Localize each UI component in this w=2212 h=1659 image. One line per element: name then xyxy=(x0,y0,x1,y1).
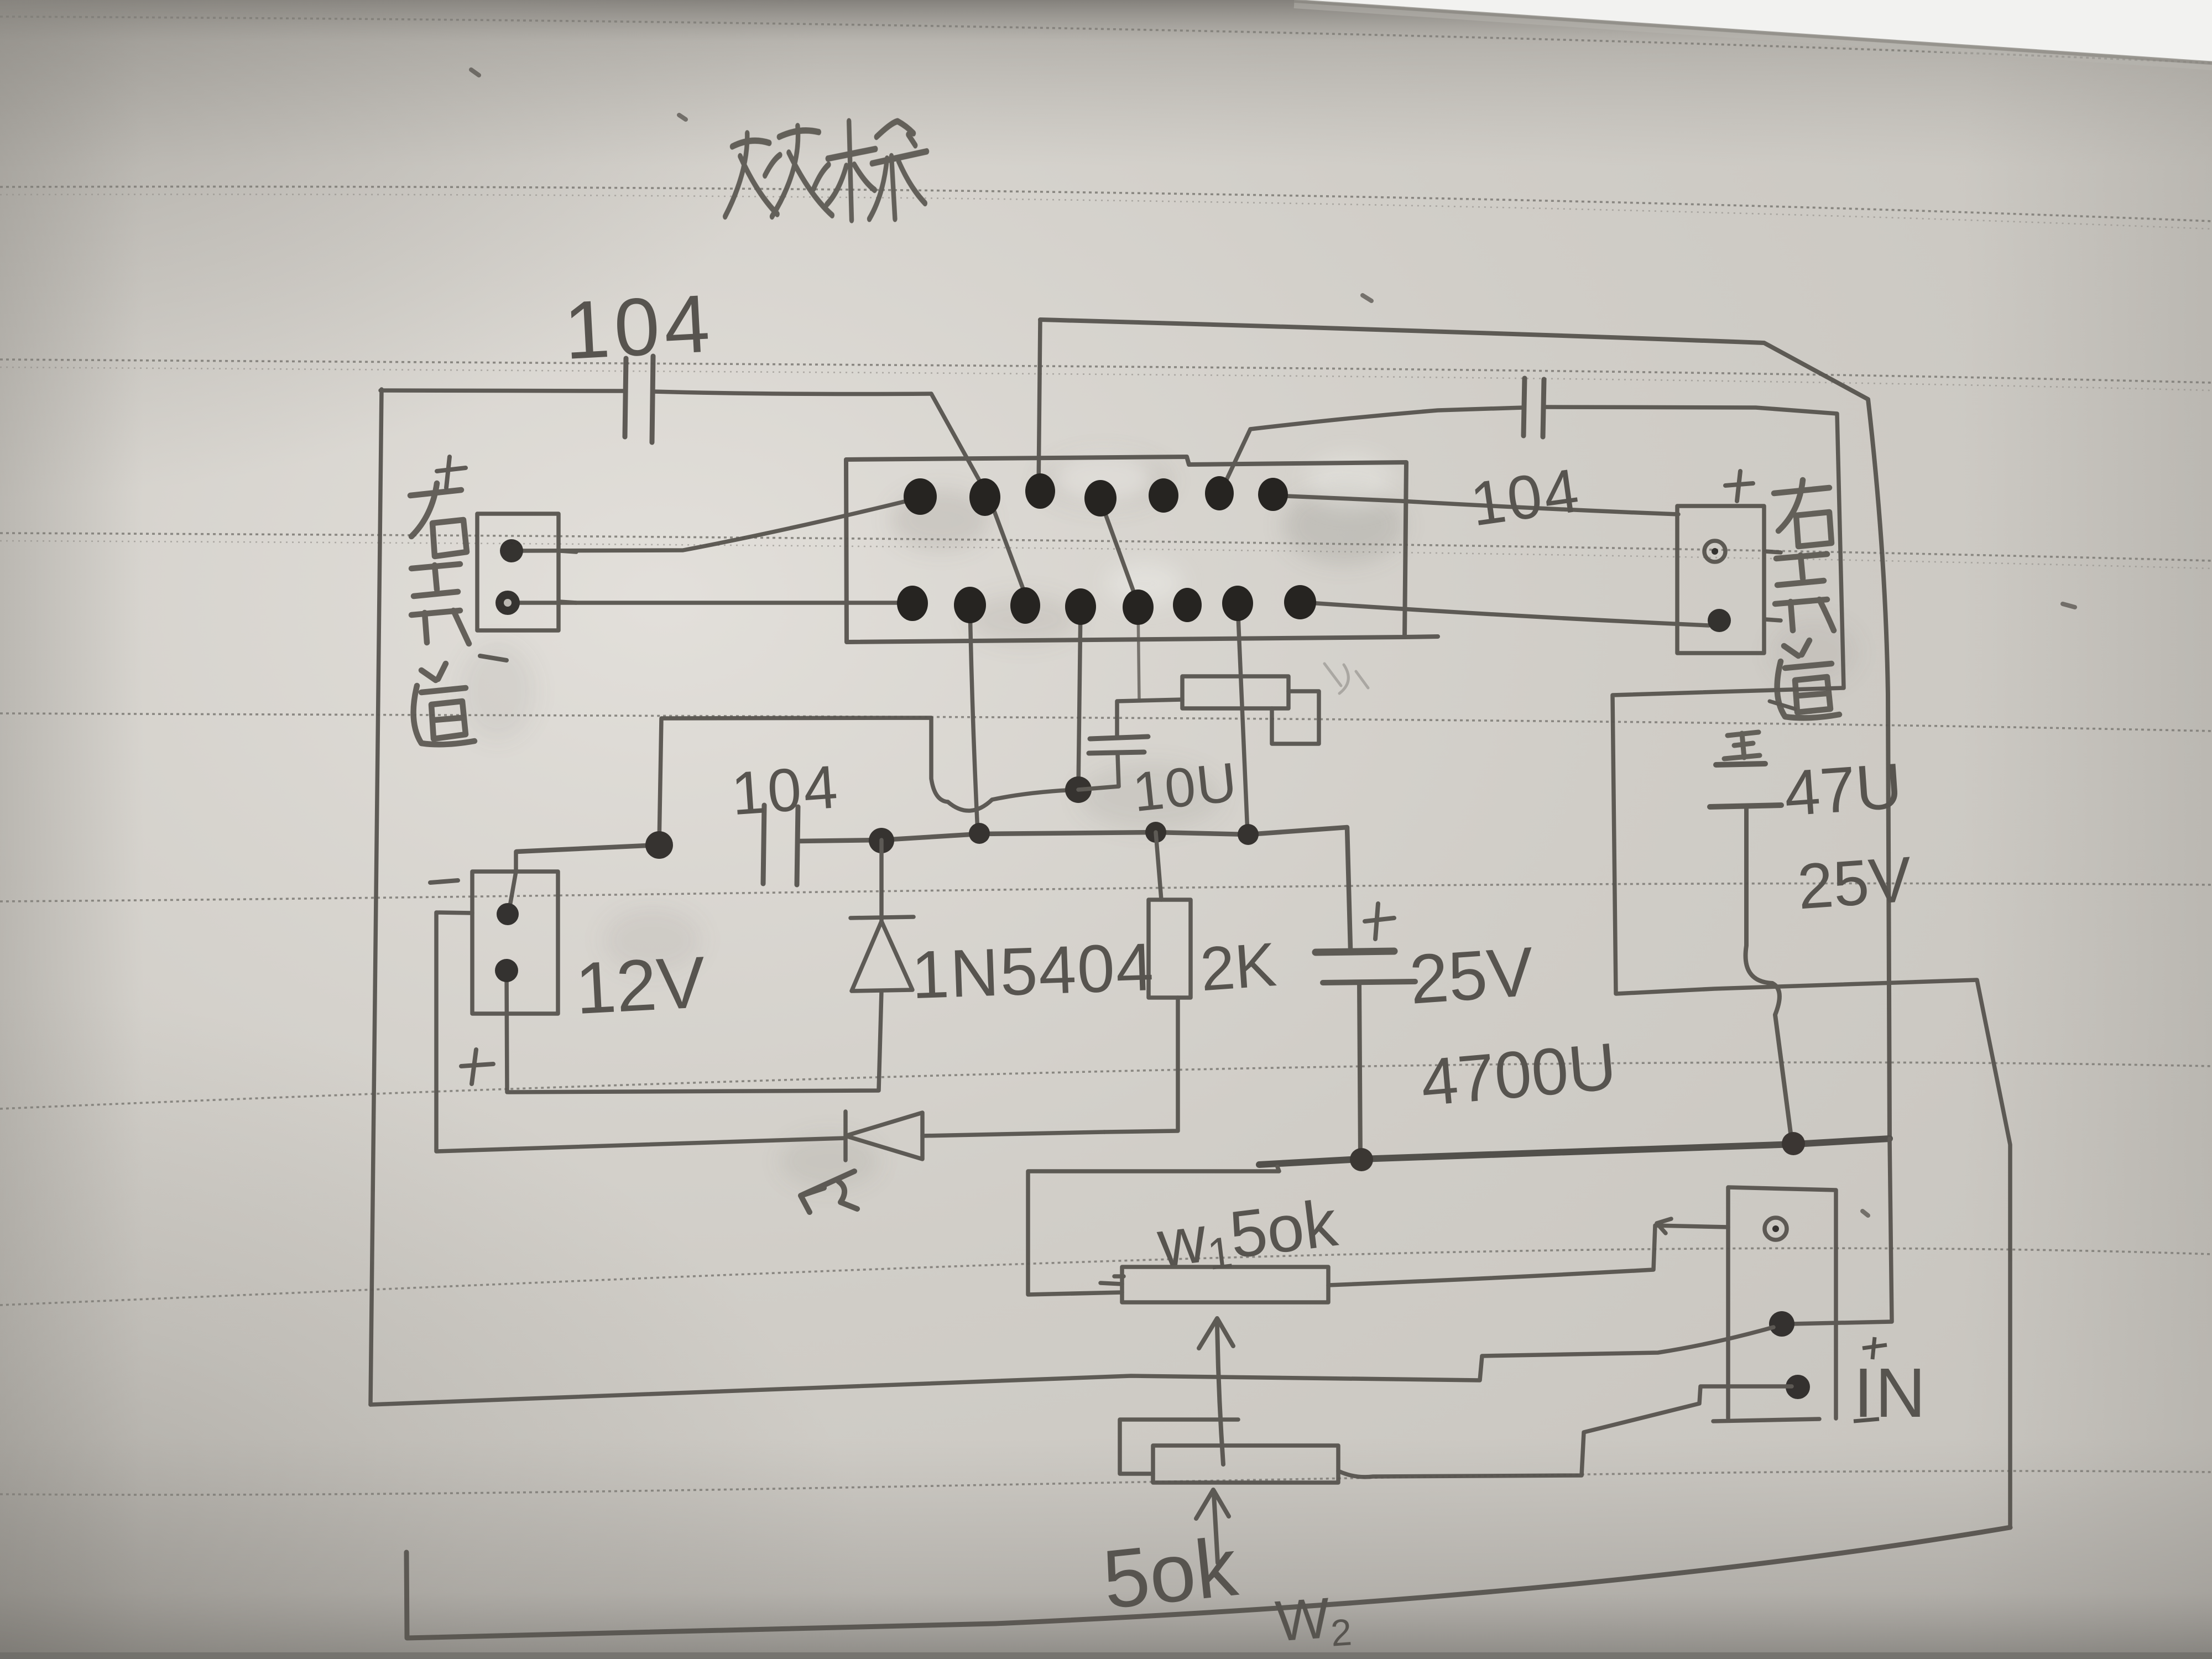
wire rail corner down to IN middle xyxy=(1792,1139,1892,1324)
polarity plus J3 xyxy=(461,1050,493,1084)
arrows K under D2 xyxy=(801,1171,857,1212)
wire node to 10U bottom xyxy=(1078,786,1119,790)
page top edge / white table wedge xyxy=(1294,0,2212,62)
pin T7 xyxy=(1258,478,1288,511)
wire pin B8 to connector J2 bottom xyxy=(1301,602,1709,625)
W2 wiper arrow xyxy=(1196,1490,1229,1563)
wire J3 left loop to diode D2 line xyxy=(436,912,846,1151)
pin B8 xyxy=(1284,585,1316,619)
pin B5 xyxy=(1123,589,1154,625)
capacitor C3 104 right plate xyxy=(797,807,798,885)
pin T2 xyxy=(969,478,1000,516)
svg-text:25V: 25V xyxy=(1407,932,1536,1019)
capacitor C1 104 left plate xyxy=(625,358,626,437)
handwritten labels xyxy=(562,278,1928,1658)
title and CJK labels as strokes xyxy=(410,121,1839,759)
capacitor C2 104 left plate xyxy=(1524,378,1525,436)
capacitor C1 104 right plate xyxy=(652,356,653,442)
diode D1 1N5404 xyxy=(507,840,914,1092)
pin T3 xyxy=(1025,473,1055,509)
wire pin B7 through trimmer to bus xyxy=(1238,603,1248,833)
wire 10U stems xyxy=(1117,700,1182,786)
diode D2 (to left) xyxy=(846,1112,922,1160)
wire top border with bevel and right border down to rail xyxy=(1040,320,1890,1139)
capacitor C5 10U bottom plate xyxy=(1089,752,1144,753)
potentiometer W2 left bracket xyxy=(1120,1420,1238,1474)
polarity minus J1 xyxy=(480,656,507,660)
connector J4 IN xyxy=(1713,1187,1836,1421)
wire connector J1 top terminal to pin T1 xyxy=(513,498,918,551)
wire C4 stem to rail xyxy=(1359,983,1360,1160)
connector J2 (right channel) xyxy=(1677,506,1764,653)
wire pin B2 down to bus xyxy=(970,605,978,833)
polarity plus J2 xyxy=(1725,471,1753,501)
12V connector J3 xyxy=(472,872,558,1014)
wire pin B4 down to node xyxy=(1078,607,1081,789)
svg-text:104: 104 xyxy=(562,278,716,377)
title 双桥 xyxy=(725,121,927,220)
bus wire from 12V stem to C4 corner xyxy=(517,827,1350,949)
wire pin T6 riser to C2 xyxy=(1220,408,1524,494)
wire pin B5 stub to 10U link xyxy=(1138,607,1139,700)
pin B2 xyxy=(954,587,986,623)
connector block U1 outline xyxy=(846,457,1438,642)
junction dot bus-trimmer xyxy=(1238,824,1259,845)
junction dot bus-2K xyxy=(1145,822,1166,843)
wire pin T7 to connector J2 top xyxy=(1274,495,1678,514)
pencil smudges xyxy=(459,453,1858,1189)
faint scribble 45 inside block xyxy=(1324,664,1368,693)
wire riser pin T3 to top border xyxy=(1039,320,1040,490)
resistor R1 2K body xyxy=(1149,900,1191,998)
junction dot bus-pinB2 xyxy=(969,823,990,844)
small char above 47U xyxy=(1724,732,1760,759)
svg-text:10U: 10U xyxy=(1130,751,1240,823)
wire W2 right to IN bottom xyxy=(1338,1386,1792,1477)
trimmer RP3 tab box xyxy=(1272,691,1319,744)
connector block U1 pins xyxy=(897,473,1316,625)
wire W1 right to IN top xyxy=(1328,1219,1728,1285)
left label column (right channel) xyxy=(410,483,467,556)
wire connector J1 bottom terminal to pin B1 xyxy=(509,601,911,605)
capacitor C3 104 left plate xyxy=(763,805,764,884)
wire C1 to corner xyxy=(653,392,931,394)
pin B6 xyxy=(1173,588,1202,622)
potentiometer W2 body xyxy=(1153,1446,1338,1483)
pin B4 xyxy=(1065,588,1096,625)
junction dot bus-C3 right xyxy=(869,828,894,853)
node junction dot 10U xyxy=(1065,776,1092,803)
resistor R1 2K leads xyxy=(1104,832,1178,1132)
eraser highlights xyxy=(1053,453,1394,606)
svg-text:5ok: 5ok xyxy=(1099,1520,1242,1626)
wire C6 stem with hop to rail dot xyxy=(1746,807,1792,1141)
capacitor C6 47U bottom plate xyxy=(1710,805,1781,807)
svg-text:104: 104 xyxy=(729,753,842,828)
polarity plus C4 xyxy=(1365,904,1394,939)
potentiometer W1 left loop xyxy=(1028,1167,1279,1295)
wire C2 to right channel enclosure xyxy=(1544,407,2010,1527)
pin B3 xyxy=(1010,587,1040,624)
capacitor C2 104 right plate xyxy=(1543,379,1544,437)
right label column (left channel) xyxy=(1774,480,1832,546)
capacitor C5 10U top plate xyxy=(1090,737,1148,739)
svg-text:2K: 2K xyxy=(1198,930,1278,1004)
junction dot rail-C4 xyxy=(1350,1148,1373,1171)
wire left border bottom to IN middle xyxy=(371,1327,1773,1405)
rail B bottom xyxy=(406,1527,2010,1638)
polarity minus J2 xyxy=(1770,701,1795,709)
pin T4 xyxy=(1084,480,1117,517)
capacitor C6 47U top plate xyxy=(1716,764,1765,765)
junction dot rail-C6 xyxy=(1782,1132,1805,1155)
pin T5 xyxy=(1149,478,1178,513)
pin T6 xyxy=(1205,476,1234,510)
wire D2 to R1 bottom xyxy=(922,1132,1104,1136)
capacitor C4 4700U bottom plate xyxy=(1323,982,1415,983)
wire hop arc over pin B2 wire xyxy=(948,800,992,811)
wire 12V top stem xyxy=(509,852,516,912)
wire diagonal pin T4 to pin B5 xyxy=(1100,500,1138,604)
svg-text:1N5404: 1N5404 xyxy=(910,929,1156,1013)
wire left border xyxy=(371,389,382,1405)
wire diagonal to pin B3 through pin T2 xyxy=(931,394,1027,601)
polarity minus J3 xyxy=(430,880,458,883)
svg-text:12V: 12V xyxy=(573,941,707,1029)
potentiometer W1 body xyxy=(1122,1267,1328,1302)
connector J1 (left channel) xyxy=(477,514,559,630)
pin T1 xyxy=(904,478,937,515)
pin B7 xyxy=(1222,586,1253,621)
wire top-left horizontal to C1 xyxy=(380,390,624,391)
junction dot bus left (12V node) xyxy=(645,831,673,859)
pin B1 xyxy=(897,586,928,621)
svg-text:25V: 25V xyxy=(1795,843,1914,922)
capacitor C4 4700U top plate xyxy=(1316,951,1394,952)
svg-text:47U: 47U xyxy=(1782,749,1904,830)
rail A (heavy) xyxy=(1259,1139,1890,1165)
wire staircase bus to 10U node xyxy=(659,718,1077,845)
paper specks xyxy=(471,70,2075,1215)
W1 wiper arrow xyxy=(1199,1318,1233,1464)
trimmer RP3 body xyxy=(1182,676,1288,708)
polarity plus J1 xyxy=(437,457,466,488)
MAIN-DRAWING xyxy=(371,70,2075,1638)
